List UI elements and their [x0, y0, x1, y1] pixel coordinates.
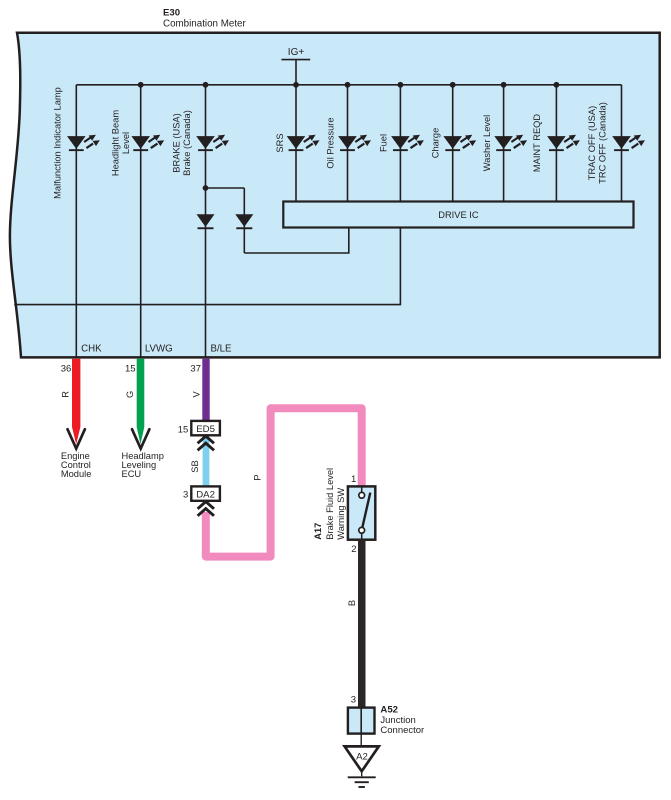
wire branch MAINT REQD — [555, 85, 557, 202]
svg-text:EngineControlModule: EngineControlModule — [61, 451, 92, 479]
wire branch SRS — [295, 85, 297, 202]
svg-text:DA2: DA2 — [196, 490, 215, 501]
LED malfunction indicator lamp — [67, 135, 100, 151]
svg-text:ED5: ED5 — [196, 424, 215, 435]
ground A2 triangle — [345, 746, 379, 771]
wire branch Fuel — [399, 85, 401, 202]
svg-text:G: G — [125, 391, 135, 398]
svg-text:Headlight Beam: Headlight Beam — [111, 110, 121, 176]
svg-text:A52: A52 — [380, 704, 398, 715]
LED fuel — [391, 135, 424, 151]
junction dot oil — [345, 82, 351, 88]
wire SB sky blue — [203, 437, 210, 487]
svg-text:MAINT REQD: MAINT REQD — [532, 114, 542, 172]
wire to ground — [360, 734, 362, 747]
svg-text:1: 1 — [351, 474, 356, 485]
junction connector divider — [360, 708, 362, 734]
svg-text:JunctionConnector: JunctionConnector — [380, 715, 424, 736]
LED headlight beam level — [131, 135, 164, 151]
switch top contact — [359, 492, 365, 498]
svg-text:A17: A17 — [313, 523, 323, 540]
svg-text:R: R — [61, 391, 71, 398]
diode D1 on brake line — [197, 214, 215, 229]
svg-text:P: P — [253, 474, 263, 480]
wire diode to drive ic — [244, 228, 348, 253]
svg-text:SRS: SRS — [275, 133, 285, 152]
svg-text:Warning SW: Warning SW — [336, 488, 346, 540]
svg-text:B: B — [347, 600, 357, 606]
connector DA2 — [191, 486, 220, 500]
LED brake — [196, 135, 229, 151]
svg-text:LVWG: LVWG — [145, 343, 173, 354]
LED washer level — [494, 135, 527, 151]
wire V violet — [202, 359, 209, 422]
junction dot maint — [554, 82, 560, 88]
LED maint reqd — [547, 135, 580, 151]
wire branch Oil Pressure — [347, 85, 349, 202]
svg-text:Fuel: Fuel — [379, 134, 389, 152]
combination meter E30 body — [10, 33, 660, 358]
ground bar 1 — [348, 776, 376, 778]
junction dot headlight — [138, 82, 144, 88]
wire G green — [137, 359, 145, 445]
wire branch Headlight Beam Level — [140, 85, 142, 357]
svg-text:E30: E30 — [163, 8, 180, 19]
svg-text:Combination Meter: Combination Meter — [163, 19, 247, 30]
wire branch Charge — [452, 85, 454, 202]
wire R red — [72, 359, 80, 445]
svg-text:Charge: Charge — [431, 128, 441, 159]
LED charge — [443, 135, 476, 151]
svg-text:37: 37 — [190, 363, 201, 374]
switch A17 brake fluid level warning sw — [348, 486, 375, 539]
junction dot srs — [293, 82, 299, 88]
LED srs — [287, 135, 320, 151]
svg-text:3: 3 — [183, 490, 188, 501]
svg-text:15: 15 — [125, 363, 136, 374]
junction connector A52 — [348, 708, 375, 734]
IG+ terminal bar — [281, 59, 310, 61]
ground bar 2 — [355, 781, 369, 783]
svg-text:BRAKE (USA): BRAKE (USA) — [172, 113, 182, 172]
svg-text:Brake Fluid Level: Brake Fluid Level — [325, 468, 335, 540]
svg-text:TRAC OFF (USA): TRAC OFF (USA) — [587, 106, 597, 180]
connector ED5 — [191, 421, 220, 435]
svg-text:Washer Level: Washer Level — [482, 115, 492, 172]
ground stub — [361, 771, 363, 776]
wire IG+ drop — [295, 60, 297, 85]
svg-text:V: V — [192, 391, 202, 398]
wire bus horizontal — [76, 84, 621, 86]
svg-text:HeadlampLevelingECU: HeadlampLevelingECU — [122, 451, 164, 479]
svg-text:3: 3 — [351, 695, 356, 706]
wire branch BRAKE — [205, 85, 207, 357]
junction dot fuel — [398, 82, 404, 88]
svg-text:Oil Pressure: Oil Pressure — [326, 117, 336, 168]
svg-text:IG+: IG+ — [288, 47, 305, 58]
junction dot washer — [501, 82, 507, 88]
svg-text:Level: Level — [121, 132, 131, 154]
connector mark below ED5 — [198, 436, 214, 450]
svg-text:A2: A2 — [356, 751, 368, 762]
connector mark below DA2 — [198, 502, 214, 516]
svg-text:B/LE: B/LE — [211, 343, 233, 354]
wire P pink — [206, 408, 362, 556]
ground bar 3 — [359, 786, 365, 788]
svg-text:Malfunction Indicator Lamp: Malfunction Indicator Lamp — [53, 87, 63, 199]
wire drive ic output down — [14, 228, 400, 305]
LED oil pressure — [338, 135, 371, 151]
wire diode branch horizontal — [206, 187, 245, 189]
diode D2 on branch — [235, 214, 253, 229]
switch top stub — [361, 486, 363, 492]
arrow to engine control module — [68, 429, 85, 448]
svg-text:36: 36 — [61, 363, 72, 374]
wire B black — [358, 540, 366, 708]
svg-text:2: 2 — [351, 544, 356, 555]
svg-text:TRC OFF (Canada): TRC OFF (Canada) — [598, 102, 608, 184]
arrow to headlamp leveling ecu — [132, 429, 149, 448]
svg-text:CHK: CHK — [81, 343, 102, 354]
wire branch TRAC OFF — [621, 85, 623, 202]
svg-text:Brake (Canada): Brake (Canada) — [182, 110, 192, 176]
junction dot brake — [203, 82, 209, 88]
svg-text:15: 15 — [178, 424, 189, 435]
wire branch Malfunction Indicator Lamp — [75, 85, 77, 357]
junction dot charge — [450, 82, 456, 88]
junction dot brake diode branch — [203, 185, 209, 191]
drive ic box — [283, 202, 633, 228]
svg-text:DRIVE IC: DRIVE IC — [438, 210, 479, 220]
switch bottom stub — [361, 533, 363, 540]
switch bottom contact — [359, 527, 365, 533]
LED trac off — [612, 135, 645, 151]
switch blade — [362, 493, 371, 531]
wire branch Washer Level — [503, 85, 505, 202]
wire diode branch vertical — [243, 188, 245, 253]
svg-text:SB: SB — [190, 460, 200, 472]
